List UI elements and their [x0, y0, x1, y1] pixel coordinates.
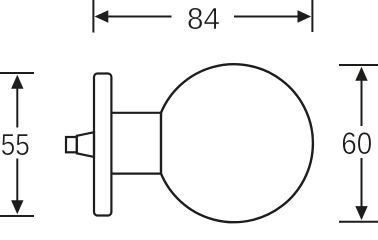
dimension 55: top extension line — [0, 72, 34, 74]
dimension 84: right arrowhead — [298, 10, 312, 22]
spindle square end — [66, 137, 77, 152]
dimension 60: top extension line — [339, 64, 378, 66]
dimension 60: lower line segment — [361, 158, 363, 208]
dimension 60: upper line segment — [361, 80, 363, 127]
dimension 55: lower line segment — [16, 159, 18, 203]
neck bottom line — [111, 173, 161, 175]
dimension 60: bottom extension line — [339, 221, 378, 223]
spindle taper — [77, 132, 94, 157]
dimension 55: bottom extension line — [0, 215, 34, 217]
dimension 55: bottom arrowhead — [11, 200, 23, 214]
dimension 84: left extension line — [92, 0, 94, 33]
dimension 55: top arrowhead — [11, 75, 23, 89]
knob ball with flat left face — [161, 64, 313, 222]
dimension 60: top arrowhead — [355, 67, 367, 81]
rose plate — [94, 74, 111, 216]
svg-text:84: 84 — [187, 1, 220, 36]
dimension 84: left arrowhead — [95, 10, 109, 22]
svg-text:60: 60 — [341, 126, 372, 161]
dimension 84: right extension line — [311, 0, 313, 32]
dimension 84: right line segment — [234, 16, 299, 18]
svg-text:55: 55 — [1, 127, 30, 162]
dimension 84: left line segment — [107, 16, 172, 18]
neck top line — [111, 112, 161, 114]
dimension 60: bottom arrowhead — [355, 206, 367, 220]
dimension 55: upper line segment — [16, 88, 18, 128]
